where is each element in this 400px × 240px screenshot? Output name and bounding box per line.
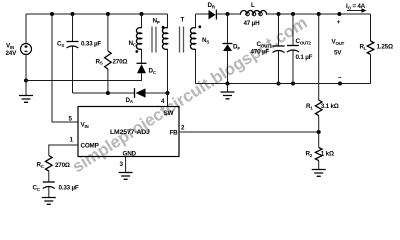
capacitor CS 0.33uF — [71, 12, 75, 16]
watermark — [69, 13, 311, 176]
capacitor COUT1 470uF — [277, 12, 281, 16]
svg-text:0.33 µF: 0.33 µF — [59, 185, 79, 192]
svg-text:0.33 µF: 0.33 µF — [81, 40, 101, 47]
svg-text:NP: NP — [153, 18, 160, 25]
svg-text:RC: RC — [37, 162, 45, 169]
svg-text:LM2577-ADJ: LM2577-ADJ — [110, 129, 150, 136]
svg-text:COMP: COMP — [81, 143, 99, 150]
svg-text:470 µF: 470 µF — [251, 49, 270, 56]
ground (R2) — [312, 170, 326, 177]
capacitor CC 0.33uF — [43, 181, 55, 183]
svg-text:VIN: VIN — [6, 43, 14, 50]
svg-text:VIN: VIN — [81, 122, 89, 129]
transformer core 2 — [180, 27, 184, 53]
resistor RC 270 — [46, 156, 53, 172]
voltage source VIN 24V — [25, 14, 27, 81]
svg-text:R2: R2 — [306, 151, 313, 158]
wire snubber node — [73, 92, 135, 94]
node VOUT tap — [317, 12, 321, 16]
resistor R1 3.1k — [315, 100, 322, 116]
svg-text:SW: SW — [164, 110, 174, 117]
wire COMP pin 1 — [49, 145, 78, 156]
svg-text:2: 2 — [181, 125, 185, 132]
inductor L 47uH — [240, 10, 266, 14]
svg-text:DC: DC — [149, 68, 157, 75]
svg-text:CS: CS — [57, 41, 64, 48]
svg-text:T: T — [181, 17, 185, 24]
node SW junction — [166, 91, 170, 95]
svg-text:−: − — [338, 75, 342, 82]
wire GND pin 3 — [125, 157, 127, 173]
svg-text:NS: NS — [202, 37, 209, 44]
transformer T : winding NS — [195, 14, 197, 84]
capacitor COUT2 0.1uF — [291, 12, 295, 16]
wire VIN pin 5 — [50, 12, 54, 16]
ground (CC) — [42, 198, 56, 205]
wire input return to DC anode — [26, 73, 142, 80]
svg-text:5: 5 — [69, 116, 73, 123]
transformer T : winding NP — [167, 14, 169, 107]
wire FB — [179, 131, 319, 133]
svg-text:GND: GND — [123, 150, 137, 157]
resistor R2 1k — [318, 132, 320, 169]
diode DR — [209, 10, 216, 19]
svg-text:1.25Ω: 1.25Ω — [377, 44, 393, 51]
svg-text:270Ω: 270Ω — [113, 59, 128, 66]
svg-text:DA: DA — [126, 97, 134, 104]
svg-text:3: 3 — [120, 161, 124, 168]
diode DF — [226, 12, 230, 16]
resistor RL 1.25 — [370, 14, 372, 84]
svg-text:RL: RL — [360, 44, 367, 51]
node + terminal — [337, 12, 341, 16]
svg-text:DR: DR — [208, 2, 216, 9]
svg-text:47 µH: 47 µH — [244, 20, 261, 27]
svg-text:5V: 5V — [334, 50, 342, 57]
svg-text:VOUT: VOUT — [332, 39, 345, 46]
svg-text:+: + — [337, 19, 341, 26]
svg-text:1: 1 — [70, 137, 74, 144]
svg-text:CC: CC — [33, 185, 41, 192]
wire top rail (primary) — [26, 13, 168, 15]
svg-text:24V: 24V — [6, 50, 18, 57]
svg-text:L: L — [251, 2, 255, 9]
op-amp U1 : IC LM2577-ADJ — [78, 107, 179, 157]
resistor RS 270 — [106, 12, 110, 16]
transformer T : winding NC — [140, 12, 144, 16]
svg-text:270Ω: 270Ω — [55, 162, 70, 169]
svg-text:1 kΩ: 1 kΩ — [321, 151, 334, 158]
svg-text:FB: FB — [170, 130, 179, 137]
diode DC — [137, 62, 147, 64]
node - terminal — [338, 82, 342, 86]
transformer core 1 — [152, 27, 156, 53]
ground (secondary) — [226, 82, 230, 86]
wire secondary top rail — [196, 13, 371, 15]
node: VIN- junction — [24, 79, 28, 83]
ground (input) — [25, 81, 27, 96]
diode DA — [134, 88, 136, 98]
ground (IC) — [119, 173, 133, 180]
svg-text:simpleprojectcircuit.blogspot.: simpleprojectcircuit.blogspot.com — [69, 13, 311, 176]
svg-text:DF: DF — [233, 44, 240, 51]
svg-text:0.1 µF: 0.1 µF — [296, 54, 313, 61]
svg-text:RS: RS — [96, 58, 103, 65]
svg-text:R1: R1 — [306, 103, 313, 110]
svg-text:COUT2: COUT2 — [296, 38, 312, 45]
wire secondary bottom rail — [196, 83, 371, 85]
svg-text:3.1 kΩ: 3.1 kΩ — [321, 103, 339, 110]
wire feedback divider drop — [318, 14, 320, 100]
svg-text:NC: NC — [129, 40, 137, 47]
